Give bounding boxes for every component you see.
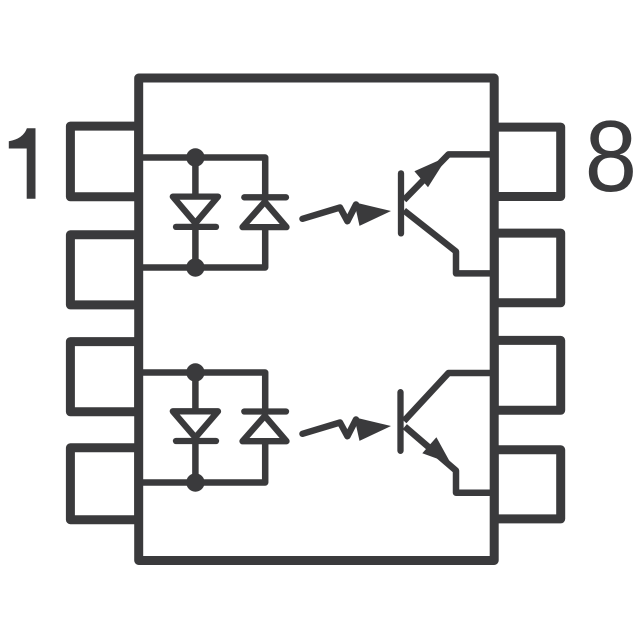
diode D2 cathode bar xyxy=(244,194,286,200)
transistor Q1 emitter arrowhead xyxy=(414,157,447,188)
diode D4 cathode bar xyxy=(244,408,286,414)
pin 2 xyxy=(70,235,138,305)
diode D2 (LED, pointing up) xyxy=(243,202,287,227)
transistor Q2 emitter (to pin 5) xyxy=(405,427,494,493)
pin 4 xyxy=(70,448,138,520)
node B: junction dot ch1 bottom xyxy=(186,258,204,276)
node A: junction dot ch1 top xyxy=(186,148,204,166)
wire: ch2 left diode branch upper xyxy=(192,373,199,414)
pin label 1 xyxy=(9,128,36,198)
wire: ch1 anode bus top xyxy=(139,158,266,198)
svg-text:8: 8 xyxy=(585,100,637,213)
transistor Q2 base bar xyxy=(397,392,403,451)
pin 8 xyxy=(494,127,561,196)
diode D1 cathode bar xyxy=(176,224,216,230)
pin 3 xyxy=(70,342,138,412)
light arrow ch2 xyxy=(303,420,357,437)
wire: ch1 left diode branch lower xyxy=(192,227,199,268)
transistor Q2 emitter arrowhead xyxy=(422,437,451,463)
transistor Q1 base bar xyxy=(398,173,404,233)
wire: ch1 cathode bus bottom xyxy=(139,227,266,267)
node D: junction dot ch2 bottom xyxy=(186,473,204,491)
IC body U1 xyxy=(139,78,495,561)
diode D1 (LED, pointing down) xyxy=(173,197,218,224)
light arrowhead ch1 xyxy=(354,202,391,226)
diode D3 (LED, pointing down) xyxy=(173,411,218,437)
diode D3 cathode bar xyxy=(176,438,216,444)
wire: ch2 left diode branch lower xyxy=(192,441,199,483)
pin 7 xyxy=(494,233,561,303)
wire: ch1 left diode branch upper xyxy=(192,158,199,199)
pin 6 xyxy=(494,340,561,410)
transistor Q1 collector (to pin 7) xyxy=(404,211,494,274)
diode D4 (LED, pointing up) xyxy=(243,416,287,441)
light arrow ch1 xyxy=(303,205,357,222)
pin 5 xyxy=(494,450,561,519)
transistor Q1 emitter (to pin 8) xyxy=(404,154,494,200)
light arrowhead ch2 xyxy=(354,417,391,441)
node C: junction dot ch2 top xyxy=(186,363,204,381)
pin 1 xyxy=(70,126,138,197)
wire: ch2 anode bus top xyxy=(139,373,266,412)
wire: ch2 cathode bus bottom xyxy=(139,441,266,482)
transistor Q2 collector (to pin 6) xyxy=(404,373,494,421)
